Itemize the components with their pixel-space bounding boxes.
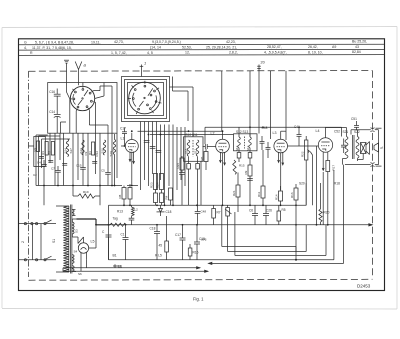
output transformer S21 bbox=[345, 137, 348, 159]
tube L4 bbox=[318, 128, 332, 153]
svg-text:R2: R2 bbox=[48, 151, 52, 155]
wire transformer bottom to bus bbox=[63, 260, 87, 272]
capacitor C23 bbox=[150, 147, 156, 149]
svg-text:R24: R24 bbox=[156, 182, 160, 188]
svg-text:R26: R26 bbox=[176, 163, 180, 169]
svg-text:S10 S11: S10 S11 bbox=[186, 133, 198, 137]
svg-text:C2: C2 bbox=[33, 173, 37, 177]
coil S14 bbox=[66, 139, 68, 157]
svg-text:C26: C26 bbox=[266, 209, 272, 213]
svg-text:R14: R14 bbox=[275, 194, 279, 200]
wire IF1 secondary drop bbox=[200, 161, 202, 205]
rectifier tube L5 bbox=[78, 237, 89, 262]
connector 20 lead bbox=[257, 65, 261, 134]
tube L2 bbox=[216, 131, 230, 153]
svg-text:R20: R20 bbox=[324, 211, 330, 215]
svg-text:R11: R11 bbox=[257, 191, 261, 197]
tube L3 bbox=[274, 131, 288, 153]
power box left wire bbox=[108, 205, 110, 259]
resistor R2 bbox=[51, 142, 54, 156]
svg-text:R13: R13 bbox=[117, 210, 123, 214]
svg-text:Tag: Tag bbox=[113, 217, 118, 221]
wire L2 anode riser bbox=[205, 127, 342, 144]
svg-text:11,37, P, 31, 7 5,48(6, 15,: 11,37, P, 31, 7 5,48(6, 15, bbox=[32, 46, 72, 50]
capacitor C1a bbox=[106, 235, 112, 260]
wire box bottom extension up right bbox=[333, 170, 335, 260]
svg-text:25, 29,28,14,20, 21,: 25, 29,28,14,20, 21, bbox=[206, 45, 237, 49]
wire detector to AF bbox=[288, 145, 319, 147]
svg-text:S12: S12 bbox=[235, 145, 239, 151]
resistor pair R23 R24 bbox=[154, 174, 164, 206]
capacitor C8 bbox=[48, 161, 53, 163]
resistor R1 bbox=[45, 142, 48, 156]
parts table rules bbox=[19, 44, 385, 55]
svg-text:20: 20 bbox=[261, 61, 265, 65]
wire earth lead bbox=[66, 63, 68, 82]
svg-text:26,42,: 26,42, bbox=[308, 45, 318, 49]
svg-text:9,(3,0,7,0,(9,24,5,): 9,(3,0,7,0,(9,24,5,) bbox=[152, 40, 181, 44]
IF T2 coil S12 bbox=[238, 134, 241, 153]
svg-text:d: d bbox=[381, 146, 384, 150]
resistor R8 pair bbox=[122, 184, 132, 205]
resistor R4 bbox=[169, 188, 173, 205]
svg-text:1, 5, 7,42,: 1, 5, 7,42, bbox=[111, 51, 127, 55]
wire S1 wafer drops bbox=[61, 83, 105, 134]
svg-text:19,11,: 19,11, bbox=[91, 40, 100, 44]
tube L3 heater leads bbox=[278, 152, 284, 190]
wire speaker return bbox=[343, 154, 364, 165]
svg-text:R23: R23 bbox=[150, 182, 154, 188]
svg-text:L5: L5 bbox=[91, 240, 95, 244]
svg-text:C17: C17 bbox=[120, 127, 126, 131]
capacitor C41 bbox=[297, 129, 302, 146]
wire bundle under S1 box bbox=[39, 133, 118, 185]
wire vertical to detector cluster bbox=[269, 71, 271, 139]
IF transformer T1 box bbox=[184, 137, 204, 162]
svg-text:C18: C18 bbox=[150, 227, 156, 231]
heater bus B bbox=[63, 270, 208, 272]
IF T1 coil S10 bbox=[187, 140, 190, 156]
svg-text:C: C bbox=[102, 230, 105, 234]
capacitor C17 bbox=[122, 128, 127, 142]
svg-text:C17: C17 bbox=[175, 233, 181, 237]
svg-text:ove: ove bbox=[201, 238, 207, 242]
capacitor C51 bbox=[354, 121, 359, 130]
capacitor C26 bbox=[263, 205, 269, 225]
svg-text:2: 2 bbox=[21, 241, 25, 243]
svg-text:R16: R16 bbox=[290, 192, 294, 198]
svg-text:2,8,2,: 2,8,2, bbox=[229, 51, 238, 55]
svg-text:R3: R3 bbox=[88, 151, 92, 155]
wire screen line bbox=[150, 134, 234, 136]
svg-text:R19: R19 bbox=[83, 190, 89, 194]
capacitor C52 bbox=[341, 139, 346, 154]
connector contact 5 bbox=[345, 163, 379, 167]
svg-text:R15: R15 bbox=[239, 164, 245, 168]
tube L1 heater leads bbox=[127, 152, 138, 186]
resistor R5 bbox=[277, 205, 281, 225]
wire anode to output transformer bbox=[326, 128, 347, 137]
resistor R26 bbox=[179, 156, 185, 205]
svg-text:L3: L3 bbox=[273, 131, 277, 135]
svg-text:4, ,5,9,5,4,8(7,: 4, ,5,9,5,4,8(7, bbox=[264, 51, 287, 55]
trimmer C30 bbox=[187, 157, 191, 206]
resistor R13 bbox=[110, 223, 126, 226]
svg-text:S6: S6 bbox=[78, 272, 82, 276]
wire vertical to IF2 coil bbox=[249, 71, 251, 137]
IF T2 trimmer C36 bbox=[248, 153, 252, 163]
capacitor C3 bbox=[39, 157, 44, 159]
junction dots on left bus bbox=[43, 185, 113, 187]
svg-text:S1: S1 bbox=[52, 239, 56, 243]
transformer top secondary S2 bbox=[72, 210, 75, 216]
trimmer pot R12 bbox=[225, 205, 232, 246]
svg-text:42,23,: 42,23, bbox=[226, 40, 236, 44]
svg-text:R L5: R L5 bbox=[155, 254, 162, 258]
capacitor C25 bbox=[156, 151, 162, 153]
wire bundle under S2 box bbox=[141, 122, 186, 206]
svg-text:43: 43 bbox=[355, 45, 359, 49]
junction dots on box top bbox=[123, 204, 297, 206]
capacitor C21 bbox=[144, 141, 150, 143]
capacitor C16 bbox=[54, 89, 61, 103]
wire S20 drop bbox=[306, 183, 320, 205]
IF T2 core bbox=[244, 137, 246, 149]
capacitor C12 bbox=[62, 164, 67, 166]
capacitor C33 bbox=[260, 136, 265, 150]
IF T2 trimmer C35 bbox=[237, 153, 241, 163]
svg-text:C15: C15 bbox=[76, 163, 82, 167]
capacitor C34 bbox=[266, 142, 271, 158]
svg-text:S12 S13: S12 S13 bbox=[236, 130, 248, 134]
svg-text:S14: S14 bbox=[63, 148, 67, 154]
coil S13 bbox=[82, 140, 84, 155]
svg-text:S19: S19 bbox=[109, 151, 113, 157]
band switch nested loop C bbox=[128, 83, 164, 116]
svg-text:28,52,47,: 28,52,47, bbox=[267, 45, 282, 49]
capacitor C14 variable bbox=[54, 109, 61, 123]
coil S7 bbox=[113, 134, 115, 186]
svg-text:52,53,: 52,53, bbox=[182, 46, 192, 50]
svg-text:R22: R22 bbox=[301, 151, 305, 157]
mains transformer primary S1 bbox=[56, 206, 69, 272]
svg-text:S10: S10 bbox=[184, 148, 188, 154]
parts table row 1 text bbox=[24, 40, 367, 45]
resistor R15 bbox=[233, 160, 237, 174]
wire bus drops left bbox=[36, 135, 100, 205]
wire AF grid drop bbox=[313, 146, 317, 225]
junction dots anode bus bbox=[222, 126, 300, 132]
node b lead into S2 box bbox=[140, 65, 144, 77]
svg-text:L6: L6 bbox=[118, 264, 122, 268]
svg-text:S21: S21 bbox=[343, 130, 349, 134]
resistor R9 bbox=[248, 162, 252, 205]
capacitor C17b bbox=[180, 225, 186, 260]
band switch nested loop B bbox=[125, 80, 167, 119]
svg-text:C52: C52 bbox=[334, 130, 340, 134]
power box right wire bbox=[295, 205, 297, 259]
svg-text:Bu 25,26,: Bu 25,26, bbox=[352, 40, 367, 44]
svg-text:S13: S13 bbox=[79, 148, 83, 154]
svg-text:12,: 12, bbox=[185, 51, 190, 55]
parts table row 2 text bbox=[24, 45, 359, 50]
svg-text:R2: R2 bbox=[33, 147, 37, 151]
junction dot box bottom bbox=[295, 259, 297, 261]
svg-text:S13: S13 bbox=[246, 145, 250, 151]
svg-text:S22: S22 bbox=[354, 130, 360, 134]
svg-text:B1: B1 bbox=[113, 254, 117, 258]
capacitor C19 bbox=[194, 225, 200, 260]
junction dots midband bbox=[114, 130, 190, 186]
svg-text:C7: C7 bbox=[51, 166, 55, 170]
parts table row 3 text bbox=[30, 50, 361, 55]
svg-text:4,: 4, bbox=[24, 46, 27, 50]
bus wire left bbox=[36, 185, 122, 187]
resistor R7 bbox=[212, 205, 216, 225]
band switch box S1 bbox=[48, 83, 117, 134]
tube L2 heater leads bbox=[219, 152, 225, 205]
svg-text:R: R bbox=[30, 51, 33, 55]
heater bus A bbox=[63, 267, 200, 269]
output transformer S22 bbox=[356, 130, 359, 161]
choke L2b bbox=[129, 205, 135, 225]
chassis dashed box bbox=[29, 71, 373, 281]
capacitor C7 bbox=[55, 166, 61, 186]
svg-text:C16: C16 bbox=[49, 90, 55, 94]
diode C18 bbox=[157, 205, 165, 216]
wire grid line L1-L2 bbox=[138, 130, 222, 132]
junction dots on HT bus bbox=[95, 224, 329, 226]
wire nested corner 2 bbox=[228, 225, 307, 252]
svg-text:S16: S16 bbox=[100, 148, 104, 154]
output transformer core bbox=[353, 135, 354, 159]
tube L1 bbox=[121, 133, 138, 153]
svg-text:L2: L2 bbox=[135, 208, 139, 212]
mains transformer core bbox=[70, 205, 72, 274]
aerial terminal bbox=[75, 62, 82, 83]
svg-text:R16: R16 bbox=[193, 251, 199, 255]
power box bottom wire bbox=[109, 259, 334, 261]
svg-text:L2: L2 bbox=[211, 132, 215, 136]
trimmer C5 bbox=[105, 170, 111, 186]
svg-text:C18: C18 bbox=[166, 210, 172, 214]
tube L4 heater leads bbox=[322, 152, 328, 225]
wire nested corner 1 bbox=[222, 205, 296, 252]
resistor R3 bbox=[92, 142, 95, 155]
earth terminal bbox=[64, 60, 69, 63]
svg-text:R4: R4 bbox=[165, 195, 169, 199]
wafer switch S2 bbox=[128, 81, 161, 114]
capacitor C4 bbox=[41, 160, 47, 186]
svg-text:S11: S11 bbox=[193, 149, 197, 154]
svg-text:R17: R17 bbox=[332, 165, 336, 171]
capacitor C15 bbox=[80, 164, 86, 186]
resistor R6 bbox=[204, 149, 208, 170]
wire rectifier output to HT bbox=[89, 225, 96, 248]
IF T1 core bbox=[192, 140, 194, 157]
svg-text:L4: L4 bbox=[316, 129, 320, 133]
svg-text:R1: R1 bbox=[41, 151, 45, 155]
wafer switch S1 bbox=[70, 85, 96, 111]
HT bus wire bbox=[77, 219, 111, 225]
svg-text:(14, 14: (14, 14 bbox=[150, 46, 161, 50]
speaker cone d bbox=[374, 128, 382, 166]
svg-text:R9: R9 bbox=[244, 170, 248, 174]
resistor R5b bbox=[165, 216, 169, 260]
capacitor C18b bbox=[154, 225, 160, 260]
svg-text:S4: S4 bbox=[74, 250, 78, 254]
capacitor C22 bbox=[203, 144, 216, 149]
svg-text:G: G bbox=[24, 40, 27, 44]
svg-text:R21: R21 bbox=[232, 190, 236, 196]
HT bus continued bbox=[110, 224, 372, 226]
svg-text:C1: C1 bbox=[121, 233, 125, 237]
svg-text:82,84: 82,84 bbox=[352, 50, 361, 54]
svg-text:R8: R8 bbox=[118, 194, 122, 198]
resistor R25 bbox=[37, 141, 40, 152]
mains switch row 2 bbox=[19, 256, 56, 261]
svg-text:42,73,: 42,73, bbox=[114, 40, 124, 44]
svg-text:R5: R5 bbox=[282, 208, 286, 212]
svg-text:C51: C51 bbox=[351, 117, 357, 121]
power box top wire bbox=[109, 204, 307, 206]
IF T2 coil S13b bbox=[249, 134, 252, 153]
connector contact 7 bbox=[351, 128, 379, 135]
coil S16 bbox=[103, 140, 105, 155]
svg-text:C48: C48 bbox=[201, 210, 207, 214]
resistor R20 bbox=[319, 202, 322, 225]
wire lower nest line bbox=[209, 165, 344, 265]
resistor R21 bbox=[236, 173, 240, 213]
band switch nested loop A bbox=[122, 77, 170, 122]
svg-text:D2453: D2453 bbox=[357, 284, 371, 289]
wire vertical from chassis top to mixer bbox=[221, 71, 223, 131]
wire selector links bbox=[33, 224, 42, 260]
svg-text:45: 45 bbox=[159, 244, 163, 248]
svg-text:C9: C9 bbox=[84, 151, 88, 155]
svg-text:L1: L1 bbox=[121, 137, 125, 141]
transformer heater secondary S4 bbox=[72, 255, 74, 265]
capacitor C6 bbox=[252, 205, 258, 225]
transformer HV secondary S3 bbox=[72, 219, 78, 244]
svg-text:C4: C4 bbox=[37, 160, 41, 164]
svg-text:R12: R12 bbox=[95, 151, 99, 157]
capacitor C6E bbox=[195, 205, 201, 225]
svg-text:S17: S17 bbox=[69, 148, 73, 154]
wire loop left input bbox=[29, 137, 46, 167]
capacitor C29 bbox=[247, 179, 253, 181]
svg-text:1: 1 bbox=[144, 61, 146, 66]
svg-text:S20: S20 bbox=[299, 182, 305, 186]
transformer low secondary S5 bbox=[72, 266, 76, 272]
wire loop from S2 to IF1 bbox=[170, 77, 194, 137]
svg-text:R7: R7 bbox=[217, 211, 221, 215]
resistor R17 cathode bbox=[326, 161, 330, 225]
svg-text:a: a bbox=[84, 63, 87, 68]
ground L6 marker bbox=[113, 264, 121, 268]
capacitor C13 bbox=[92, 162, 97, 164]
capacitor C1b bbox=[123, 225, 129, 260]
svg-text:S3: S3 bbox=[75, 229, 79, 233]
voltage selector row 1 bbox=[19, 220, 56, 225]
resistor R16b bbox=[188, 244, 192, 260]
border frame bbox=[19, 39, 385, 291]
svg-text:A9: A9 bbox=[332, 45, 336, 49]
svg-text:5, 6,7, ( E 9,4, B 8,47,28,: 5, 6,7, ( E 9,4, B 8,47,28, bbox=[35, 40, 74, 44]
anode feed bus bbox=[205, 126, 342, 128]
resistor R14 bbox=[279, 186, 283, 205]
svg-text:C14: C14 bbox=[49, 110, 55, 114]
resistor R16 bbox=[294, 184, 298, 205]
trimmer C31 bbox=[196, 157, 200, 206]
IF T1 coil S11 bbox=[196, 140, 199, 156]
wire S1 box internals bbox=[57, 83, 112, 134]
wire nested corner 3 bbox=[235, 212, 326, 256]
wire vertical to L3 bbox=[285, 71, 287, 140]
speaker magnet bbox=[361, 142, 370, 155]
resistor R11 bbox=[261, 150, 265, 205]
IF transformer T2 box bbox=[234, 134, 258, 151]
resistor R19 bbox=[73, 194, 100, 198]
potentiometer R22 volume bbox=[305, 136, 313, 205]
svg-text:R6: R6 bbox=[200, 156, 204, 160]
svg-text:C6: C6 bbox=[249, 209, 253, 213]
svg-text:4, 5: 4, 5 bbox=[147, 51, 153, 55]
svg-text:8, 19, 10,: 8, 19, 10, bbox=[308, 50, 323, 54]
svg-text:Fig. 1: Fig. 1 bbox=[193, 297, 204, 302]
svg-text:R18: R18 bbox=[334, 182, 340, 186]
svg-text:C5: C5 bbox=[101, 168, 105, 172]
